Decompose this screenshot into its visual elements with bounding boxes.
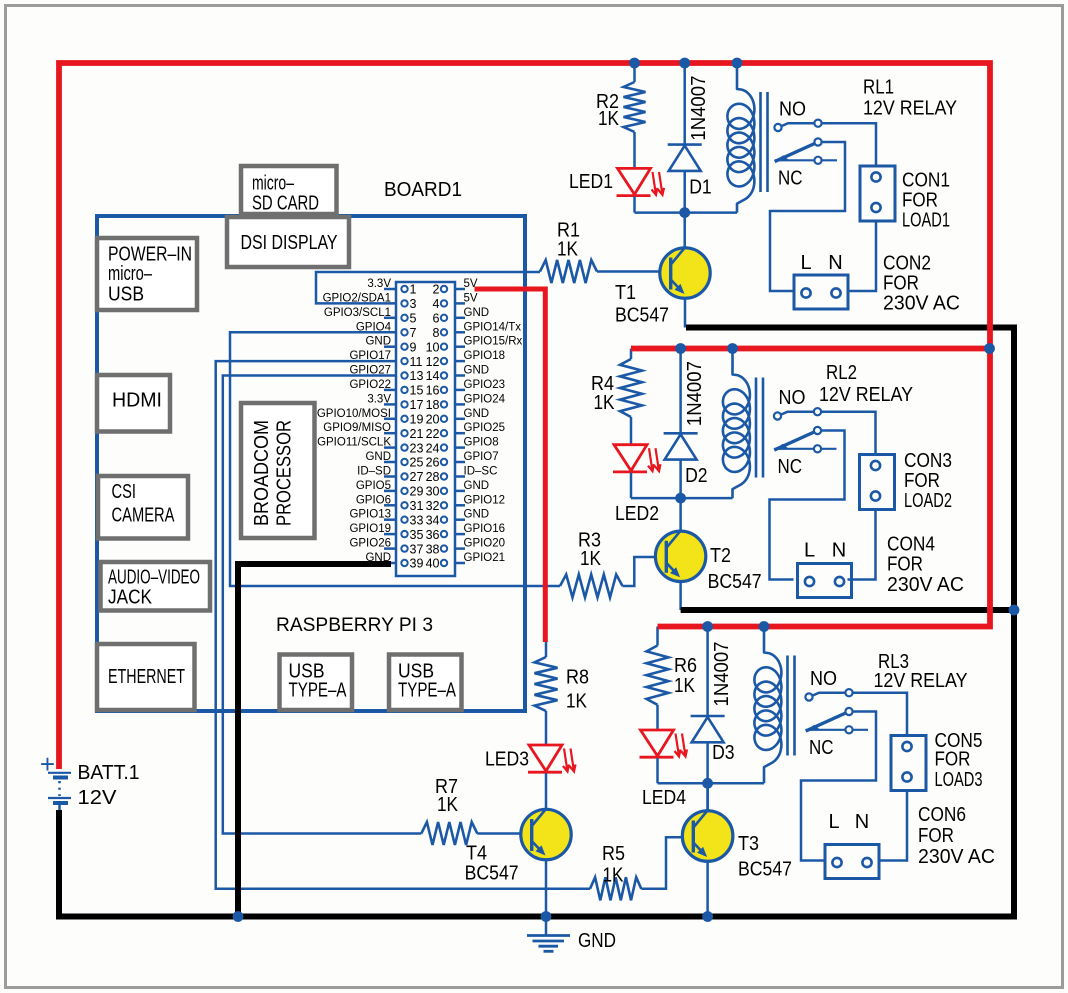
svg-text:T4: T4 [466, 843, 487, 865]
svg-text:230V AC: 230V AC [918, 846, 995, 868]
junction [732, 58, 743, 69]
svg-text:BC547: BC547 [615, 305, 669, 327]
battery BATT.1 [40, 749, 71, 813]
svg-text:21: 21 [410, 427, 424, 441]
svg-text:GND: GND [578, 930, 616, 952]
pin 7 (GPIO4) [401, 329, 407, 335]
svg-text:230V AC: 230V AC [883, 293, 960, 315]
relay NO terminal [805, 693, 812, 700]
wire R6 to LED4 [656, 705, 659, 731]
svg-text:GND: GND [464, 408, 490, 420]
svg-text:3: 3 [410, 297, 417, 311]
transistor T2 [655, 531, 705, 581]
svg-text:29: 29 [410, 485, 424, 499]
svg-text:6: 6 [433, 312, 440, 326]
ground [527, 917, 570, 952]
pin 28 (ID–SC) [441, 473, 447, 479]
svg-text:31: 31 [410, 499, 424, 513]
micro-SD CARD port [241, 166, 337, 215]
resistor R4 [620, 359, 642, 417]
svg-text:20: 20 [426, 413, 440, 427]
svg-text:5V: 5V [464, 292, 478, 304]
connector CON2 [794, 275, 848, 309]
svg-text:CON4: CON4 [887, 534, 935, 556]
svg-text:GPIO14/Tx: GPIO14/Tx [464, 321, 522, 333]
junction [727, 343, 738, 354]
svg-text:16: 16 [426, 384, 440, 398]
svg-text:NO: NO [779, 99, 806, 121]
svg-text:35: 35 [410, 528, 424, 542]
pin 11 (GPIO17) [401, 358, 407, 364]
junction [1009, 605, 1020, 616]
svg-text:40: 40 [426, 557, 440, 571]
relay pole contact [814, 427, 821, 434]
relay NO terminal [774, 124, 781, 131]
svg-text:GPIO21: GPIO21 [464, 552, 506, 564]
svg-text:32: 32 [426, 499, 440, 513]
pin 40 (GPIO21) [441, 560, 447, 566]
HDMI port [97, 375, 170, 432]
svg-text:L: L [828, 811, 839, 833]
pin 31 (GPIO6) [401, 502, 407, 508]
svg-text:GND: GND [365, 451, 391, 463]
svg-text:15: 15 [410, 384, 424, 398]
transistor T3 [682, 811, 732, 861]
junction [675, 343, 686, 354]
svg-text:+: + [40, 749, 55, 779]
wire LED4 to junction [656, 758, 659, 783]
pin 18 (GPIO24) [441, 401, 447, 407]
svg-text:CSI: CSI [112, 481, 137, 503]
svg-text:BC547: BC547 [465, 863, 519, 885]
svg-text:NC: NC [778, 456, 803, 478]
CSI CAMERA port [98, 476, 188, 539]
pin 20 (GND) [441, 416, 447, 422]
svg-text:SD CARD: SD CARD [252, 193, 319, 215]
wire 12V rail to diode D1 [683, 63, 686, 145]
svg-text:T1: T1 [615, 282, 636, 304]
svg-text:1K: 1K [603, 865, 625, 887]
wire junction horizontal under D2 [631, 497, 733, 500]
POWER-IN micro USB port [97, 238, 197, 310]
5V wire from GPIO pin 2 to R8 [475, 289, 546, 642]
svg-text:L: L [804, 540, 815, 562]
pin 30 (GND) [441, 488, 447, 494]
svg-text:D1: D1 [689, 177, 712, 199]
svg-text:N: N [832, 540, 846, 562]
wire 5V red to R8 [545, 642, 548, 658]
svg-text:RASPBERRY PI 3: RASPBERRY PI 3 [276, 615, 433, 636]
svg-text:GND: GND [464, 480, 490, 492]
svg-text:R5: R5 [602, 843, 625, 865]
wire GPIO17 to R5 [216, 361, 590, 889]
GPIO header connector [317, 278, 523, 576]
pin 10 (GPIO15/Rx) [441, 344, 447, 350]
svg-text:GPIO22: GPIO22 [349, 379, 391, 391]
svg-text:28: 28 [426, 470, 440, 484]
svg-text:GPIO23: GPIO23 [464, 379, 506, 391]
connector CON1 [860, 166, 895, 221]
resistor R6 [647, 646, 669, 705]
svg-text:DSI DISPLAY: DSI DISPLAY [241, 232, 338, 254]
wire CON load to mains connector [848, 510, 876, 580]
relay pole contact [814, 138, 821, 145]
svg-text:HDMI: HDMI [112, 390, 162, 412]
transistor T4 [521, 809, 571, 859]
svg-text:RL1: RL1 [863, 77, 894, 99]
svg-text:ID–SC: ID–SC [464, 466, 498, 478]
pin 19 (GPIO10/MOSI) [401, 416, 407, 422]
wire T2 emitter lead [679, 581, 682, 610]
wire R5 to T3 base [641, 837, 683, 889]
svg-text:3.3V: 3.3V [367, 278, 391, 290]
svg-text:GPIO19: GPIO19 [349, 523, 391, 535]
svg-text:BC547: BC547 [708, 571, 762, 593]
pin 29 (GPIO5) [401, 488, 407, 494]
svg-text:10: 10 [426, 340, 440, 354]
relay armature [806, 712, 849, 732]
svg-text:19: 19 [410, 413, 424, 427]
relay NO terminal [774, 412, 781, 419]
relay coil 1 [727, 63, 754, 213]
pin 2 (5V) [441, 286, 447, 292]
svg-text:1N4007: 1N4007 [711, 642, 733, 707]
svg-text:LED4: LED4 [642, 787, 686, 809]
pin 6 (GND) [441, 315, 447, 321]
svg-text:14: 14 [426, 369, 440, 383]
svg-text:5: 5 [410, 312, 417, 326]
USB TYPE-A port 1 [280, 655, 353, 711]
svg-text:BATT.1: BATT.1 [78, 762, 140, 784]
junction [679, 58, 690, 69]
svg-text:34: 34 [426, 513, 440, 527]
svg-text:BC547: BC547 [738, 859, 792, 881]
svg-text:CON6: CON6 [918, 804, 966, 826]
pin 16 (GPIO23) [441, 387, 447, 393]
svg-text:RL2: RL2 [826, 362, 857, 384]
relay NC fixed contact [814, 157, 821, 164]
12V rail for RL2 [631, 346, 990, 352]
relay core 1 [759, 92, 762, 192]
svg-text:1K: 1K [594, 392, 616, 414]
svg-text:23: 23 [410, 441, 424, 455]
wire GPIO27 to R7 [223, 376, 421, 834]
svg-text:R8: R8 [566, 667, 589, 689]
svg-text:1K: 1K [437, 794, 459, 816]
svg-text:1: 1 [410, 283, 417, 297]
board BOARD1 outline [97, 216, 525, 711]
svg-text:LED3: LED3 [485, 749, 529, 771]
relay coil 2 [723, 349, 750, 499]
pin 39 GND stub [383, 562, 396, 565]
diode D1 anode wire [683, 171, 686, 213]
ground wire from T1 emitter along right and bottom to battery [59, 328, 1014, 917]
BROADCOM PROCESSOR [241, 403, 315, 538]
svg-text:GPIO25: GPIO25 [464, 422, 506, 434]
svg-text:R6: R6 [674, 655, 697, 677]
svg-text:FOR: FOR [918, 825, 954, 847]
svg-text:GPIO11/SCLK: GPIO11/SCLK [317, 437, 391, 449]
pin 17 (3.3V) [401, 401, 407, 407]
diode D3 [691, 715, 725, 718]
wire LED3 to T4 collector [545, 773, 548, 810]
pin 34 (GND) [441, 517, 447, 523]
wire collector junction to transistor T1 [683, 213, 686, 248]
wire R7 to T4 base [477, 832, 522, 835]
resistor R2 [624, 82, 646, 132]
resistor R3 [560, 575, 623, 598]
svg-text:GPIO15/Rx: GPIO15/Rx [464, 336, 523, 348]
svg-text:micro–: micro– [252, 173, 295, 195]
svg-text:AUDIO–VIDEO: AUDIO–VIDEO [108, 567, 200, 589]
svg-text:GPIO12: GPIO12 [464, 494, 506, 506]
junction [679, 207, 690, 218]
pin 26 (GPIO7) [441, 459, 447, 465]
svg-text:CON3: CON3 [904, 450, 952, 472]
pin 27 (ID–SD) [401, 473, 407, 479]
svg-text:39: 39 [410, 557, 424, 571]
svg-text:ETHERNET: ETHERNET [108, 666, 185, 688]
wire R4 to LED2 [630, 417, 633, 445]
junction [702, 911, 713, 922]
svg-text:micro–: micro– [108, 263, 153, 285]
svg-text:LED2: LED2 [615, 503, 659, 525]
wire 12V rail to diode D3 [706, 627, 709, 717]
svg-text:GPIO9/MISO: GPIO9/MISO [323, 422, 391, 434]
svg-text:7: 7 [410, 326, 417, 340]
svg-text:26: 26 [426, 456, 440, 470]
wire junction horizontal under D1 [635, 211, 738, 214]
ground wire from GPIO pin 39 [238, 564, 391, 917]
ground wire from T2 emitter [681, 607, 1014, 613]
relay NO fixed contact [814, 408, 821, 415]
svg-text:L: L [800, 252, 811, 274]
LED LED4 [641, 730, 674, 756]
relay NC contact wire [806, 729, 868, 731]
relay armature [774, 431, 817, 451]
pin 22 (GPIO25) [441, 430, 447, 436]
wire GPIO4 to R3 [230, 332, 560, 586]
svg-text:24: 24 [426, 441, 440, 455]
junction [702, 778, 713, 789]
AUDIO-VIDEO JACK port [101, 562, 211, 611]
svg-text:38: 38 [426, 542, 440, 556]
wire collector junction to transistor T3 [706, 783, 709, 811]
relay NC fixed contact [845, 726, 852, 733]
svg-text:4: 4 [433, 297, 440, 311]
diode D3 anode wire [706, 742, 709, 783]
svg-text:13: 13 [410, 369, 424, 383]
pin 33 (GPIO13) [401, 517, 407, 523]
svg-text:CON2: CON2 [883, 253, 931, 275]
pin 24 (GPIO8) [441, 444, 447, 450]
resistor R8 [535, 657, 558, 711]
svg-text:9: 9 [410, 340, 417, 354]
pin 9 (GND) [401, 344, 407, 350]
svg-text:1K: 1K [674, 675, 696, 697]
wire T4 emitter to ground rail [545, 860, 548, 917]
wire LED1 to junction [633, 196, 636, 212]
junction [759, 621, 770, 632]
DSI DISPLAY port [227, 217, 349, 267]
svg-text:NC: NC [809, 737, 834, 759]
svg-text:GND: GND [464, 509, 490, 521]
svg-text:17: 17 [410, 398, 424, 412]
svg-text:GPIO20: GPIO20 [464, 538, 506, 550]
connector CON6 [825, 845, 879, 879]
junction [984, 343, 995, 354]
svg-text:LOAD1: LOAD1 [902, 210, 950, 232]
diode D1 [668, 143, 702, 146]
svg-text:1K: 1K [598, 108, 620, 130]
svg-text:BROADCOM: BROADCOM [251, 420, 273, 526]
svg-text:BOARD1: BOARD1 [384, 178, 462, 201]
pin 14 (GND) [441, 372, 447, 378]
connector CON5 [891, 736, 926, 791]
svg-text:36: 36 [426, 528, 440, 542]
wire 12V rail to resistor R4 [630, 349, 633, 360]
svg-text:8: 8 [433, 326, 440, 340]
svg-text:GPIO17: GPIO17 [349, 350, 391, 362]
pin 36 (GPIO16) [441, 531, 447, 537]
wire CON load to mains connector [848, 221, 876, 291]
wire T3 emitter to ground rail [706, 861, 709, 917]
svg-text:LED1: LED1 [569, 171, 613, 193]
relay NO fixed contact [814, 120, 821, 127]
pin 37 (GPIO26) [401, 545, 407, 551]
svg-text:GPIO2/SDA1: GPIO2/SDA1 [323, 292, 391, 304]
connector CON3 [860, 455, 895, 510]
svg-text:12V RELAY: 12V RELAY [819, 384, 913, 406]
wire 12V rail to resistor R2 [633, 63, 636, 82]
relay coil 3 [754, 627, 781, 784]
svg-text:37: 37 [410, 542, 424, 556]
svg-text:12V RELAY: 12V RELAY [863, 98, 957, 120]
svg-text:1N4007: 1N4007 [688, 76, 710, 141]
svg-text:GND: GND [464, 307, 490, 319]
pin 38 (GPIO20) [441, 545, 447, 551]
relay NC contact wire [774, 448, 836, 450]
wire 12V rail to resistor R6 [656, 627, 659, 646]
wire GPIO2/SDA1 to R1 [316, 272, 540, 303]
svg-text:GPIO16: GPIO16 [464, 523, 506, 535]
relay NO contact wire [812, 693, 907, 736]
svg-text:22: 22 [426, 427, 440, 441]
wire R2 to LED1 [633, 132, 636, 169]
svg-text:25: 25 [410, 456, 424, 470]
svg-text:1K: 1K [566, 691, 588, 713]
junction [629, 58, 640, 69]
LED LED1 [618, 168, 651, 194]
resistor R1 [540, 260, 597, 283]
svg-text:18: 18 [426, 398, 440, 412]
relay NO contact wire [781, 412, 876, 455]
connector CON4 [798, 564, 852, 598]
transistor T1 [660, 248, 710, 298]
wire junction horizontal under D3 [658, 782, 765, 785]
svg-text:FOR: FOR [904, 470, 940, 492]
svg-text:N: N [855, 811, 869, 833]
svg-text:GPIO4: GPIO4 [356, 321, 392, 333]
relay pole wire to load connector [770, 142, 845, 291]
svg-text:1K: 1K [557, 239, 579, 261]
junction [541, 911, 552, 922]
pin 12 (GPIO18) [441, 358, 447, 364]
svg-text:GPIO10/MOSI: GPIO10/MOSI [317, 408, 391, 420]
svg-text:12V: 12V [78, 787, 118, 809]
svg-text:33: 33 [410, 513, 424, 527]
resistor R7 [421, 822, 477, 845]
relay NO fixed contact [845, 689, 852, 696]
wire 12V rail to diode D2 [679, 349, 682, 434]
svg-text:NO: NO [779, 387, 806, 409]
LED LED2 [614, 445, 647, 471]
svg-text:GND: GND [365, 336, 391, 348]
pin 1 (3.3V) [401, 286, 407, 292]
svg-text:FOR: FOR [883, 273, 919, 295]
svg-text:TYPE–A: TYPE–A [289, 680, 347, 702]
wire R1 to T1 base [597, 270, 660, 273]
svg-text:CON1: CON1 [902, 170, 950, 192]
relay core 3 [786, 656, 789, 756]
svg-text:LOAD2: LOAD2 [904, 490, 952, 512]
pin 21 (GPIO9/MISO) [401, 430, 407, 436]
ETHERNET port [97, 644, 195, 710]
svg-text:PROCESSOR: PROCESSOR [274, 420, 296, 526]
svg-text:1K: 1K [580, 548, 602, 570]
svg-text:3.3V: 3.3V [367, 393, 391, 405]
svg-text:FOR: FOR [887, 554, 923, 576]
relay pole contact [845, 708, 852, 715]
svg-text:GPIO3/SCL1: GPIO3/SCL1 [324, 307, 391, 319]
pin 25 (GND) [401, 459, 407, 465]
pin 15 (GPIO22) [401, 387, 407, 393]
svg-text:FOR: FOR [902, 190, 938, 212]
wire T1 emitter lead [684, 298, 687, 328]
svg-text:230V AC: 230V AC [887, 574, 964, 596]
svg-text:NC: NC [778, 168, 803, 190]
relay core 2 [755, 378, 758, 478]
relay NC fixed contact [814, 445, 821, 452]
pin 5 (GPIO3/SCL1) [401, 315, 407, 321]
svg-text:GPIO27: GPIO27 [349, 365, 391, 377]
wire R8 to LED3 [545, 711, 548, 745]
svg-text:NO: NO [810, 668, 837, 690]
svg-text:GPIO6: GPIO6 [356, 494, 391, 506]
pin 8 (GPIO14/Tx) [441, 329, 447, 335]
svg-text:GPIO24: GPIO24 [464, 393, 506, 405]
wire CON load to mains connector [879, 791, 907, 861]
pin 13 (GPIO27) [401, 372, 407, 378]
pin 32 (GPIO12) [441, 502, 447, 508]
svg-text:FOR: FOR [935, 749, 971, 771]
relay armature [775, 142, 818, 162]
svg-text:12V RELAY: 12V RELAY [874, 670, 968, 692]
svg-text:GPIO7: GPIO7 [464, 451, 499, 463]
svg-text:GPIO18: GPIO18 [464, 350, 506, 362]
svg-text:TYPE–A: TYPE–A [398, 680, 456, 702]
svg-text:11: 11 [410, 355, 423, 369]
svg-text:GPIO8: GPIO8 [464, 437, 499, 449]
svg-text:LOAD3: LOAD3 [935, 769, 983, 791]
wire LED2 to junction [630, 473, 633, 498]
svg-text:ID–SD: ID–SD [357, 466, 391, 478]
diode D2 [664, 432, 698, 435]
junction [675, 493, 686, 504]
svg-text:D3: D3 [712, 742, 735, 764]
svg-text:USB: USB [108, 284, 144, 306]
svg-text:T3: T3 [738, 833, 759, 855]
